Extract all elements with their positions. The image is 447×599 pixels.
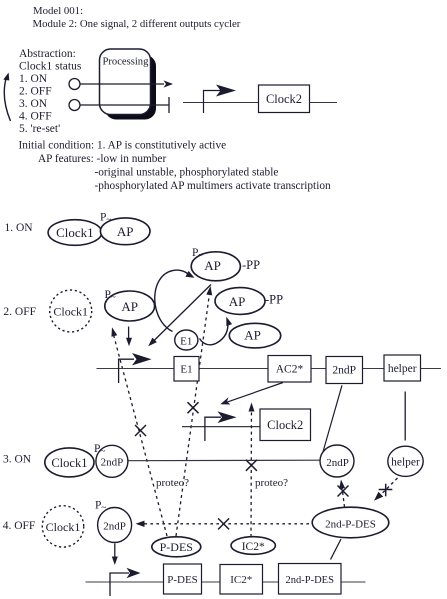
Processing box shadow: [105, 55, 156, 120]
helper circle row3: [388, 446, 423, 476]
svg-text:P~: P~: [94, 443, 105, 456]
IC2* ellipse: [231, 537, 275, 555]
svg-text:3. ON: 3. ON: [3, 454, 32, 466]
gene wire 1: [97, 368, 442, 370]
signal wire 1 (ON): [80, 83, 164, 85]
Clock1 ellipse row3: [45, 448, 94, 477]
top gene wire right of Clock2: [310, 102, 338, 104]
svg-text:-PP: -PP: [242, 258, 260, 272]
svg-text:E1: E1: [180, 336, 192, 348]
svg-text:1. ON: 1. ON: [5, 222, 34, 234]
svg-text:4. OFF: 4. OFF: [3, 520, 36, 532]
arrowhead wire 1: [164, 80, 174, 87]
curved arrow left of status list: [3, 72, 11, 121]
svg-text:Clock2: Clock2: [266, 92, 302, 106]
svg-text:proteo?: proteo?: [156, 477, 189, 489]
dashed Clock1 circle row4: [42, 506, 83, 547]
arrow AC2* to Clock2 promoter: [219, 383, 283, 408]
svg-text:proteo?: proteo?: [255, 477, 288, 489]
Clock1 ellipse row1: [48, 220, 102, 246]
2ndP ellipse row4: [98, 508, 132, 543]
svg-text:2. OFF: 2. OFF: [3, 306, 36, 318]
2ndP ellipse row3 left: [96, 445, 128, 477]
svg-text:Model 001:: Model 001:: [33, 5, 83, 17]
IC2* gene box: [220, 565, 263, 595]
dashed arrow P-DES to AP (long, left): [109, 327, 167, 536]
middle AP-PP ellipse: [215, 288, 265, 315]
2ndP circle row3 right: [320, 445, 354, 477]
down arrow 2ndP row4 to promoter 3: [112, 544, 118, 566]
2nd-P-DES gene box: [279, 564, 342, 595]
2nd-P-DES ellipse: [312, 507, 389, 538]
svg-text:Clock1: Clock1: [51, 456, 87, 470]
wire 2ndP box to 2ndP protein: [322, 385, 343, 457]
big arc E1 to phosphorylated AP: [155, 270, 196, 331]
X mark on up dashed arrow: [338, 486, 349, 497]
svg-text:P~: P~: [105, 289, 116, 302]
svg-text:IC2*: IC2*: [242, 541, 265, 553]
wire helper box to helper protein: [404, 392, 406, 441]
dashed arrow helper to 2nd-P-DES: [372, 478, 398, 503]
svg-text:2ndP: 2ndP: [101, 457, 124, 469]
svg-text:2ndP: 2ndP: [326, 457, 349, 469]
svg-text:4. OFF: 4. OFF: [19, 111, 52, 123]
svg-text:3. ON: 3. ON: [19, 98, 48, 110]
svg-text:P~: P~: [192, 247, 203, 260]
dashed arrow 2nd-P-DES up to 2ndP circle: [338, 479, 345, 507]
top AP-PP ellipse: [191, 252, 240, 281]
svg-text:AC2*: AC2*: [276, 364, 304, 376]
svg-text:helper: helper: [391, 457, 420, 469]
svg-text:E1: E1: [180, 364, 192, 376]
AC2* gene box: [268, 356, 311, 383]
diagonal arrow AP-PP to promoter: [146, 285, 211, 349]
svg-text:IC2*: IC2*: [230, 574, 252, 586]
AP ellipse row1: [100, 218, 150, 245]
svg-text:-original unstable, phosphoryl: -original unstable, phosphorylated stabl…: [95, 167, 279, 179]
small arc AP to AP-PP via E1: [200, 316, 233, 345]
bottom AP ellipse: [229, 323, 280, 348]
svg-text:AP: AP: [244, 328, 261, 343]
signal source circle 1: [69, 79, 80, 90]
svg-text:2ndP: 2ndP: [103, 521, 126, 533]
dashed arrow P-DES to AP-PP (long, right): [176, 286, 213, 536]
P-DES gene box: [164, 564, 202, 594]
promoter 2 bent arrow: [205, 411, 237, 441]
gene wire 3: [86, 581, 366, 583]
svg-text:2nd-P-DES: 2nd-P-DES: [285, 575, 334, 586]
dashed arrow IC2* up to Clock2 promoter: [249, 403, 255, 538]
Clock2 box (middle): [260, 409, 311, 441]
svg-text:Clock1: Clock1: [46, 520, 81, 534]
P~AP ellipse row2: [105, 291, 155, 321]
X mark on helper dashed arrow: [379, 484, 393, 497]
Processing box: [100, 49, 151, 115]
gene wire 2 (Clock2): [182, 426, 260, 428]
row3 wire 2ndP to 2ndP: [128, 459, 322, 462]
svg-text:AP features: -low in number: AP features: -low in number: [38, 153, 166, 165]
svg-text:AP: AP: [121, 299, 138, 314]
wire 2nd-P-DES ellipse to gene box: [331, 539, 342, 560]
svg-text:helper: helper: [388, 363, 417, 375]
dashed Clock1 circle row2: [50, 290, 92, 332]
helper gene box: [384, 355, 421, 381]
E1 gene box: [174, 357, 199, 382]
top promoter bent arrow: [204, 85, 237, 114]
inhibition T-bar: [168, 97, 170, 113]
X mark on right dashed line: [188, 402, 199, 413]
svg-text:2. OFF: 2. OFF: [19, 86, 52, 98]
2ndP gene box: [326, 357, 363, 384]
svg-text:AP: AP: [229, 294, 246, 309]
promoter 3 bent arrow: [110, 568, 141, 596]
solid down arrow from P~AP to promoter: [126, 327, 132, 347]
promoter 1 bent arrow: [119, 353, 152, 383]
top gene wire for Clock2: [183, 102, 259, 104]
svg-text:-phosphorylated AP multimers a: -phosphorylated AP multimers activate tr…: [95, 180, 331, 192]
svg-text:Processing: Processing: [103, 57, 150, 68]
svg-text:Clock1 status: Clock1 status: [19, 61, 82, 73]
X mark below row3 wire: [246, 460, 257, 471]
svg-text:AP: AP: [204, 258, 221, 273]
P-DES ellipse: [152, 537, 201, 557]
svg-text:1. ON: 1. ON: [19, 73, 48, 85]
signal wire 2 (OFF): [80, 104, 169, 106]
svg-text:Module 2: One signal, 2 differ: Module 2: One signal, 2 different output…: [33, 18, 241, 30]
svg-text:2ndP: 2ndP: [332, 365, 356, 377]
svg-text:P~: P~: [95, 500, 106, 513]
signal source circle 2: [69, 100, 80, 111]
svg-text:Clock1: Clock1: [53, 305, 88, 319]
svg-text:Abstraction:: Abstraction:: [19, 48, 76, 60]
svg-text:Initial condition: 1. AP is co: Initial condition: 1. AP is constitutive…: [19, 140, 227, 152]
svg-text:5. 're-set': 5. 're-set': [19, 123, 60, 135]
svg-text:P~: P~: [100, 212, 111, 225]
Clock2 box (top): [259, 85, 310, 113]
svg-text:-PP: -PP: [265, 293, 283, 307]
svg-text:P-DES: P-DES: [167, 574, 198, 586]
E1 circle: [175, 330, 198, 350]
svg-text:Clock1: Clock1: [56, 225, 94, 240]
horizontal dashed arrow 2nd-P-DES to 2ndP: [136, 521, 316, 527]
svg-text:AP: AP: [117, 224, 134, 239]
svg-text:P-DES: P-DES: [160, 540, 193, 554]
X mark on horizontal dashed arrow: [218, 518, 229, 529]
X mark on left dashed line: [135, 425, 146, 436]
svg-text:Clock2: Clock2: [267, 418, 303, 432]
svg-text:2nd-P-DES: 2nd-P-DES: [325, 519, 376, 531]
